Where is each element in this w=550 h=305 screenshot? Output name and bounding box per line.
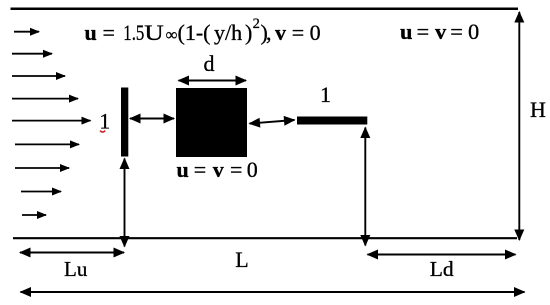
svg-text:u=1.5U∞(1-(y/h)2),v= 0: u=1.5U∞(1-(y/h)2),v= 0 <box>85 16 321 45</box>
dimension arrow Lu <box>20 252 124 254</box>
svg-text:u=v=0: u=v=0 <box>177 157 258 182</box>
svg-text:d: d <box>204 51 215 76</box>
dimension arrow Ld <box>368 254 516 256</box>
svg-text:L: L <box>235 247 248 272</box>
dimension arrow d (width of square) <box>179 80 247 82</box>
inlet velocity profile arrow 2 <box>12 53 52 55</box>
overall length dimension arrow at bottom <box>21 291 525 293</box>
gap arrow between upstream plate and square <box>130 118 174 120</box>
svg-text:Ld: Ld <box>430 257 454 281</box>
svg-text:1: 1 <box>99 109 110 134</box>
svg-text:H: H <box>530 97 546 122</box>
svg-text:u=v=0: u=v=0 <box>400 19 479 44</box>
square cylinder <box>176 88 247 157</box>
downstream splitter plate (horizontal bar) <box>297 117 367 125</box>
upstream splitter plate (vertical bar) <box>121 88 128 157</box>
inlet velocity profile arrow 8 <box>21 191 61 193</box>
gap arrow between square and downstream plate <box>250 120 295 124</box>
svg-text:1: 1 <box>320 82 331 107</box>
red underline mark below inlet label 1 <box>100 131 105 133</box>
inlet velocity profile arrow 4 <box>12 98 78 100</box>
inlet velocity profile arrow 3 <box>12 75 65 77</box>
vertical dimension arrow from downstream plate to bottom wall <box>364 128 366 246</box>
top wall of channel <box>11 7 519 10</box>
inlet velocity profile arrow 5 (centerline) <box>12 120 91 122</box>
vertical dimension arrow from upstream plate to bottom wall <box>124 159 126 247</box>
inlet velocity profile arrow 6 <box>15 143 79 145</box>
inlet velocity profile arrow 9 <box>22 214 46 216</box>
bottom wall of channel <box>13 237 517 239</box>
inlet velocity profile arrow 1 <box>14 31 39 33</box>
inlet velocity profile arrow 7 <box>15 167 69 169</box>
channel height dimension arrow H <box>518 12 520 240</box>
svg-text:Lu: Lu <box>64 257 88 281</box>
